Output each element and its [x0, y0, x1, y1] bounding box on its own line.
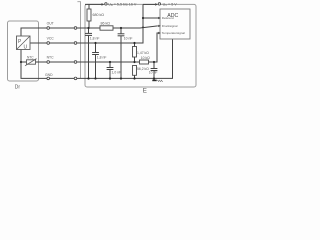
svg-text:U: U — [24, 45, 28, 51]
capacitor C3 1,8 nF — [92, 43, 99, 79]
junction node GND/R5 — [133, 77, 135, 79]
junction node Referenz — [142, 17, 144, 19]
capacitor C1 1,8 nF — [85, 28, 92, 79]
pressure sensor housing Dr — [8, 21, 39, 81]
connector contact GND sensor side — [47, 77, 50, 80]
svg-text:NTC: NTC — [47, 55, 55, 59]
svg-text:GND: GND — [45, 73, 53, 77]
pin arrow Referenz — [158, 17, 161, 19]
svg-text:1,0 nF: 1,0 nF — [112, 70, 122, 74]
connector contact VCC sensor side — [47, 42, 50, 45]
junction node VCC/C3 — [94, 42, 96, 44]
ECU housing box E — [85, 4, 196, 87]
resistor R5 56,2 kOhm — [133, 66, 137, 79]
resistor R1 680 kOhm — [87, 4, 91, 28]
connector contact GND ECU side — [74, 77, 77, 80]
svg-text:Dr: Dr — [15, 85, 21, 91]
junction node sensor common — [20, 61, 22, 63]
svg-text:10 nF: 10 nF — [149, 71, 158, 75]
svg-text:NTC: NTC — [27, 56, 34, 60]
connector contact VCC ECU side — [74, 42, 77, 45]
capacitor C5 10 nF — [151, 62, 158, 79]
terminal UB — [85, 3, 107, 6]
svg-text:E: E — [143, 87, 147, 94]
svg-text:1,47 kΩ: 1,47 kΩ — [137, 51, 149, 55]
pin arrow Temperatursignal — [158, 32, 161, 34]
wire Referenz — [143, 17, 159, 19]
svg-text:56,2 kΩ: 56,2 kΩ — [137, 67, 149, 71]
capacitor C4 1,0 nF — [107, 62, 114, 79]
pin arrow Drucksignal — [158, 25, 161, 27]
svg-text:Drucksignal: Drucksignal — [162, 24, 178, 28]
wire VCC net — [30, 42, 135, 44]
svg-text:UV = 5 V: UV = 5 V — [163, 2, 178, 7]
junction node NTC/C4 — [109, 61, 111, 63]
resistor R3 1,47 kOhm — [133, 43, 137, 62]
junction node VCC/R3 — [133, 42, 135, 44]
svg-text:VCC: VCC — [47, 36, 55, 40]
junction node GND/C5 — [153, 77, 155, 79]
junction node NTC/R3 — [133, 61, 135, 63]
transducer U1 P/U — [17, 36, 31, 51]
ground symbol — [152, 80, 162, 82]
svg-text:10 kΩ: 10 kΩ — [141, 56, 150, 60]
ADC block U2 — [160, 9, 190, 39]
resistor R4 10 kOhm — [140, 60, 149, 64]
connector boundary line — [77, 2, 80, 79]
junction node GND/C3 — [94, 77, 96, 79]
junction node GND/C1 — [87, 77, 89, 79]
junction node OUT/C2 — [120, 27, 122, 29]
connector contact NTC ECU side — [74, 61, 77, 64]
connector contact NTC sensor side — [47, 61, 50, 64]
connector contact OUT ECU side — [74, 27, 77, 30]
junction node OUT/C1 — [87, 27, 89, 29]
svg-text:OUT: OUT — [47, 21, 54, 25]
svg-text:680 kΩ: 680 kΩ — [93, 13, 105, 17]
wire GND net — [21, 39, 173, 78]
svg-text:UB = 5,5 bis 16 V: UB = 5,5 bis 16 V — [108, 2, 137, 7]
capacitor C2 10 nF — [118, 28, 125, 79]
junction node NTC/C5 — [153, 61, 155, 63]
junction node GND/C4 — [109, 77, 111, 79]
wire OUT net — [21, 26, 158, 36]
resistor R2 86 kOhm — [100, 26, 113, 30]
thermistor NTC — [25, 59, 37, 66]
svg-text:Referenz: Referenz — [162, 16, 175, 20]
svg-text:86 kΩ: 86 kΩ — [101, 22, 111, 26]
svg-text:10 nF: 10 nF — [124, 36, 133, 40]
wire 5V riser — [135, 4, 144, 43]
svg-text:1,8 nF: 1,8 nF — [97, 55, 107, 59]
svg-text:Temperatursignal: Temperatursignal — [162, 31, 185, 35]
wire crossing mark 5V riser over OUT — [142, 26, 144, 28]
connector contact OUT sensor side — [47, 27, 50, 30]
svg-text:1,8 nF: 1,8 nF — [90, 36, 100, 40]
junction node GND/C2 — [120, 77, 122, 79]
wire NTC net — [21, 33, 158, 62]
terminal UV — [143, 3, 161, 6]
